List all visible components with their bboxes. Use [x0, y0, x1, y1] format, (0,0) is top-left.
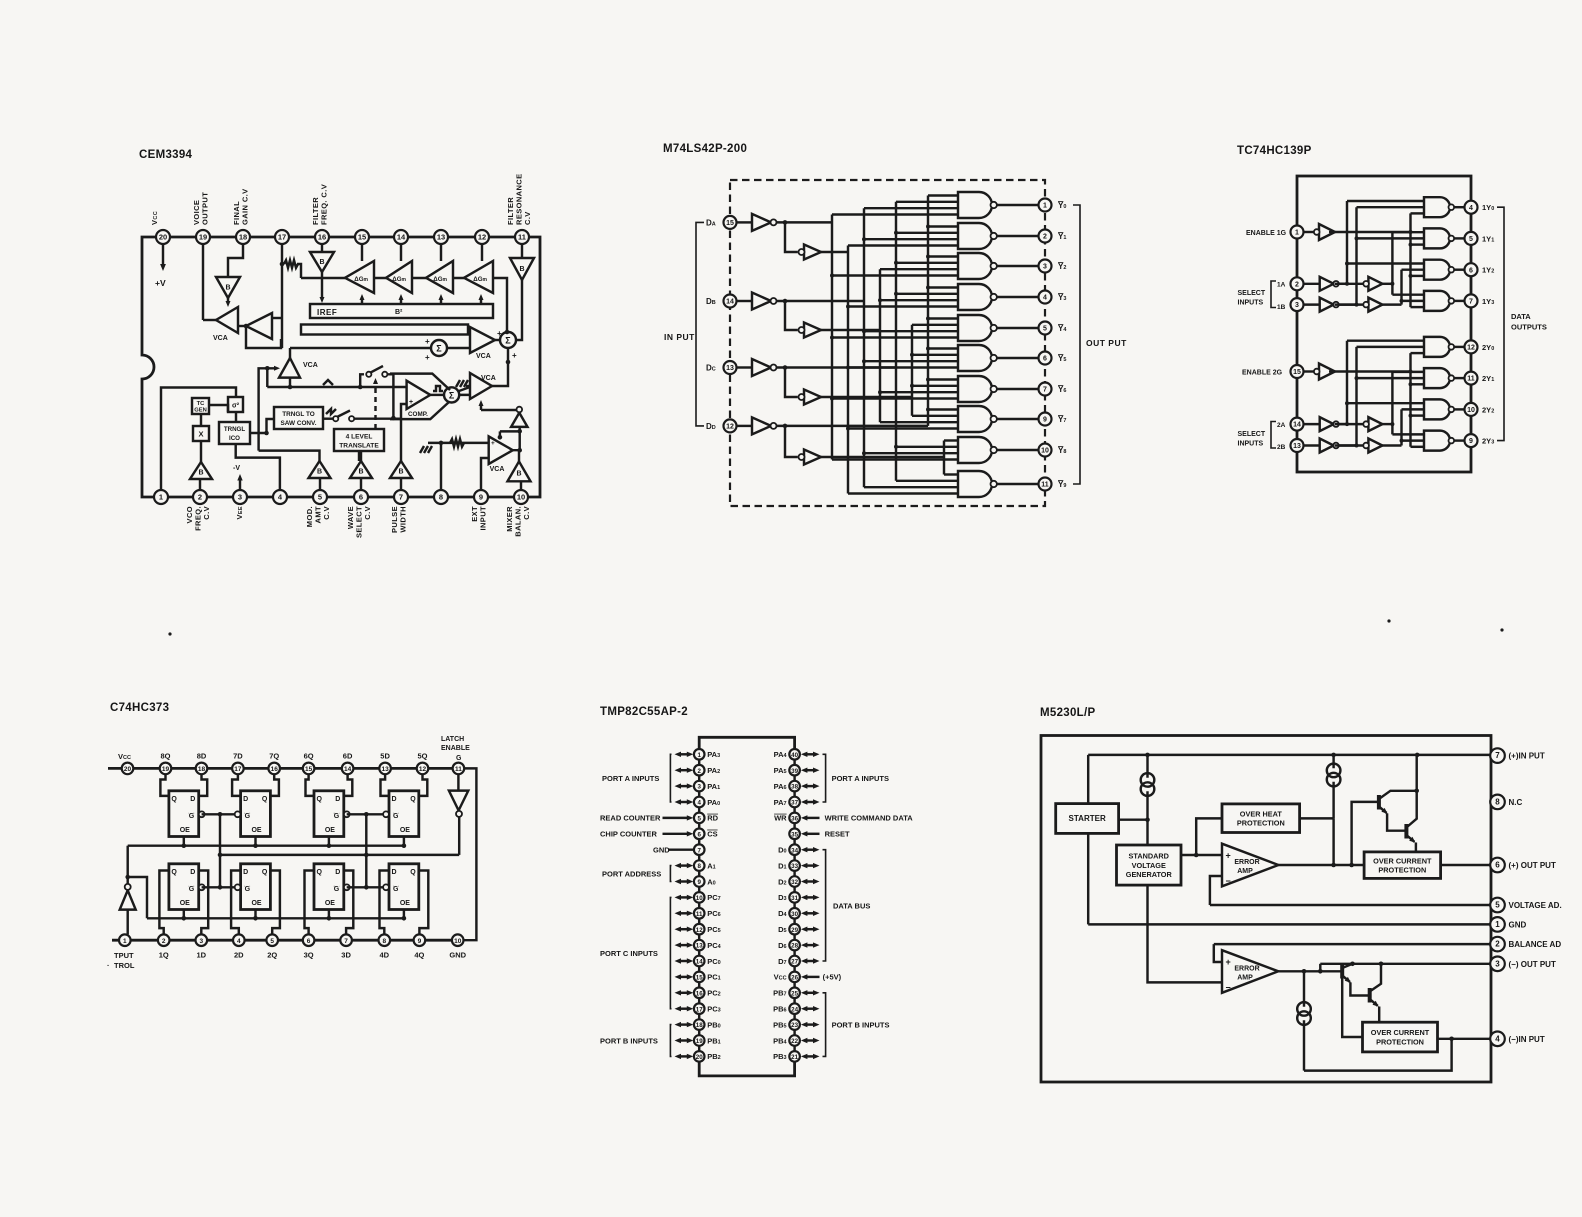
- wire latch enable line: [220, 854, 459, 856]
- node: [1145, 817, 1150, 822]
- wire gm bias: [480, 298, 482, 304]
- block TRNGL TO SAW CONV: [274, 407, 323, 429]
- wire: [200, 414, 202, 426]
- svg-text:1Y0: 1Y0: [1482, 203, 1494, 212]
- current source I3: [1297, 1002, 1311, 1025]
- svg-text:3: 3: [199, 938, 203, 945]
- wire pin 1: [126, 910, 128, 935]
- svg-text:35: 35: [791, 831, 798, 838]
- pin 9 output Y7: [1039, 413, 1052, 426]
- pin column wire: [698, 807, 700, 812]
- wire gate input: [864, 452, 958, 454]
- svg-text:5: 5: [270, 938, 274, 945]
- wire pin19 vertical: [202, 244, 204, 320]
- wire gate input: [912, 385, 958, 387]
- svg-text:(−) OUT PUT: (−) OUT PUT: [1509, 960, 1556, 969]
- wire gate input: [1357, 346, 1425, 348]
- pin 16: [268, 763, 280, 775]
- wire feedback loop: [246, 326, 281, 348]
- wire: [319, 478, 321, 490]
- svg-text:Q: Q: [410, 796, 416, 803]
- wire inverter link: [1339, 444, 1364, 446]
- svg-text:STARTER: STARTER: [1069, 814, 1106, 823]
- block OVER CURRENT PROTECTION lower: [1363, 1022, 1438, 1052]
- svg-text:(+5V): (+5V): [823, 973, 842, 982]
- svg-text:G: G: [245, 886, 251, 893]
- input bracket: [696, 222, 704, 426]
- wire gate input: [864, 330, 958, 332]
- svg-text:15: 15: [726, 220, 734, 227]
- wire gate input: [928, 347, 958, 349]
- arrow pin 9: [675, 879, 694, 884]
- bus vertical: [1409, 213, 1411, 307]
- label PORT C INPUTS: [600, 949, 658, 958]
- pin 12 output 2Y0: [1465, 340, 1478, 353]
- inverter DA second: [799, 245, 822, 260]
- wire OE stub bottom: [183, 910, 185, 919]
- svg-text:OE: OE: [251, 900, 261, 907]
- svg-text:Y7: Y7: [1058, 415, 1066, 424]
- inverter DC first: [752, 359, 777, 376]
- latch cell 1B (bottom row): [169, 864, 205, 910]
- pin 20: [122, 763, 134, 775]
- svg-text:19: 19: [199, 233, 207, 242]
- svg-text:5: 5: [697, 816, 701, 823]
- wire osc loop: [259, 368, 276, 450]
- arrow pin 11: [675, 911, 694, 916]
- wire inverter link: [1339, 283, 1364, 285]
- svg-text:G: G: [189, 813, 195, 820]
- bracket port B right: [823, 993, 826, 1057]
- node: [265, 366, 270, 371]
- wire gate input: [944, 473, 958, 475]
- pin column wire: [793, 966, 795, 971]
- inverter 2B first: [1320, 439, 1339, 453]
- right frame wire: [458, 768, 477, 940]
- arrow pin 21: [801, 1054, 820, 1059]
- pin 15: [303, 763, 315, 775]
- pin column wire: [698, 1030, 700, 1035]
- arrow pin 38: [801, 783, 820, 788]
- wire: [297, 264, 301, 278]
- wire error amp 1 out: [1278, 864, 1364, 866]
- svg-text:1Q: 1Q: [159, 951, 169, 960]
- svg-text:D5: D5: [778, 925, 786, 934]
- inverter enable 1G: [1314, 224, 1335, 240]
- svg-text:OE: OE: [400, 900, 410, 907]
- svg-text:13: 13: [437, 233, 445, 242]
- node: [1449, 1037, 1454, 1042]
- bracket data outputs: [1497, 207, 1504, 440]
- wire gate input: [880, 268, 958, 270]
- node junction: [244, 324, 249, 329]
- pin column wire: [793, 998, 795, 1003]
- arrow pin 10: [675, 895, 694, 900]
- svg-text:ENABLE 1G: ENABLE 1G: [1246, 230, 1287, 237]
- node: [1145, 753, 1150, 758]
- svg-text:GND: GND: [653, 846, 670, 855]
- block OVER HEAT PROTECTION: [1222, 804, 1300, 833]
- wire DA to inverter: [737, 221, 753, 223]
- wire pin1 to sigma2: [161, 388, 236, 491]
- pin 33: [789, 860, 800, 871]
- wire inverter link: [1339, 423, 1364, 425]
- svg-text:40: 40: [791, 752, 798, 759]
- wire: [289, 348, 291, 358]
- wire S3 out: [459, 387, 470, 395]
- svg-text:PB3: PB3: [773, 1052, 786, 1061]
- pin column wire: [793, 903, 795, 908]
- svg-text:31: 31: [791, 895, 798, 902]
- svg-text:34: 34: [791, 847, 798, 854]
- pin 19: [196, 230, 210, 244]
- svg-text:2: 2: [697, 768, 701, 775]
- svg-text:22: 22: [791, 1038, 798, 1045]
- label PORT A INPUTS right: [832, 774, 889, 783]
- svg-text:17: 17: [234, 766, 242, 773]
- wire OE line bottom: [147, 917, 404, 919]
- wire gate input: [880, 391, 958, 393]
- bracket port A right: [823, 754, 826, 802]
- latch cell 2A (top row): [235, 791, 271, 837]
- svg-text:Q: Q: [171, 869, 177, 876]
- block OVER CURRENT PROTECTION upper: [1364, 852, 1441, 879]
- svg-text:7Q: 7Q: [269, 752, 279, 761]
- label ENABLE 1G: [1246, 230, 1287, 237]
- wire gate input: [1411, 414, 1425, 416]
- svg-text:6: 6: [1495, 861, 1500, 870]
- amplifier B (wave select): [350, 461, 372, 478]
- wire gate input: [1402, 408, 1425, 410]
- svg-text:24: 24: [791, 1006, 798, 1013]
- svg-text:AMP: AMP: [1237, 975, 1253, 982]
- pin 7: [340, 934, 352, 946]
- label READ COUNTER: [600, 814, 661, 823]
- block X multiplier: [193, 426, 209, 441]
- pin column wire: [793, 839, 795, 844]
- wire voltage adj row: [1210, 904, 1491, 906]
- svg-text:PB6: PB6: [773, 1005, 786, 1014]
- wire Q2 emitter: [1415, 843, 1417, 852]
- block TRNGL ICO: [219, 422, 250, 444]
- pin column wire: [698, 935, 700, 940]
- wire from mixer inverter: [481, 407, 519, 410]
- svg-text:ΔGm: ΔGm: [354, 276, 368, 283]
- svg-text:Y3: Y3: [1058, 293, 1066, 302]
- pin 13: [434, 230, 448, 244]
- svg-text:2D: 2D: [234, 951, 244, 960]
- comparator COMP: [407, 381, 431, 418]
- pin 11: [515, 230, 529, 244]
- wire: [358, 451, 360, 461]
- pin 7 output 1Y3: [1465, 294, 1478, 307]
- pin 10 output Y8: [1039, 444, 1052, 457]
- inverter DD second: [799, 450, 822, 465]
- pin column wire: [793, 1030, 795, 1035]
- pin 8: [434, 490, 448, 504]
- svg-text:ICO: ICO: [229, 435, 240, 442]
- NAND gate Y1: [958, 223, 997, 249]
- label VCO FREQ. C.V pin2: [185, 506, 211, 531]
- svg-text:B: B: [516, 470, 521, 477]
- svg-text:8: 8: [1495, 798, 1500, 807]
- wire /A row: [777, 221, 833, 223]
- svg-text:PORT A INPUTS: PORT A INPUTS: [602, 774, 659, 783]
- wire: [209, 405, 228, 412]
- bottom rail: [112, 939, 458, 942]
- wire gate input: [848, 366, 958, 368]
- svg-text:VCC: VCC: [118, 752, 131, 761]
- wire gate input: [928, 225, 958, 227]
- svg-text:2Y0: 2Y0: [1482, 343, 1494, 352]
- svg-text:2: 2: [1295, 281, 1299, 288]
- wire (-)output row: [1320, 963, 1490, 965]
- pin column wire: [793, 823, 795, 828]
- inverter 1A first: [1320, 277, 1339, 291]
- label WRITE COMMAND DATA: [825, 814, 914, 823]
- bus vertical: [1409, 353, 1411, 447]
- wire: [480, 404, 482, 410]
- wire gate input: [864, 238, 958, 240]
- svg-text:1Y1: 1Y1: [1482, 234, 1494, 243]
- pin 30: [789, 908, 800, 919]
- wire to pin17 net: [272, 317, 282, 319]
- arrow pin 39: [801, 768, 820, 773]
- svg-text:WR: WR: [774, 814, 787, 823]
- svg-text:27: 27: [791, 959, 798, 966]
- wire output 1Y2: [1454, 268, 1464, 270]
- svg-text:DATA: DATA: [1511, 312, 1531, 321]
- svg-text:D6: D6: [778, 941, 786, 950]
- svg-text:7D: 7D: [233, 752, 243, 761]
- pin column wire: [793, 887, 795, 892]
- svg-text:2Y1: 2Y1: [1482, 374, 1494, 383]
- wire Q3 to OCP: [1342, 979, 1362, 1038]
- transconductor dGm 3: [426, 261, 453, 293]
- label PORT ADDRESS: [602, 870, 661, 879]
- svg-text:18: 18: [198, 766, 206, 773]
- label WAVE SELECT C.V pin6: [346, 506, 372, 538]
- svg-text:7: 7: [399, 493, 403, 502]
- wire B to bus: [1382, 303, 1401, 305]
- pin 1 output Y0: [1039, 199, 1052, 212]
- wire pin 9 to cell: [419, 871, 429, 935]
- svg-text:14: 14: [696, 959, 703, 966]
- svg-text:INPUTS: INPUTS: [1238, 300, 1264, 307]
- triangle glyph: [323, 380, 333, 385]
- NAND gate Y5: [958, 345, 997, 371]
- svg-text:G: G: [334, 813, 340, 820]
- op-amp ERROR AMP 1: [1222, 844, 1278, 887]
- svg-text:OUT PUT: OUT PUT: [1086, 338, 1127, 348]
- node: [783, 365, 788, 370]
- arrow pin 25: [801, 990, 820, 995]
- svg-text:GAIN C.V: GAIN C.V: [241, 188, 250, 225]
- wire pin 2 to cell: [159, 871, 169, 935]
- pin 1: [694, 749, 705, 760]
- svg-text:B²: B²: [395, 309, 403, 316]
- svg-text:ENABLE 2G: ENABLE 2G: [1242, 370, 1283, 377]
- svg-text:IREF: IREF: [317, 308, 337, 317]
- NAND gate Y8: [958, 437, 997, 463]
- svg-text:10: 10: [1467, 407, 1475, 414]
- wire B row: [820, 329, 880, 331]
- block sigma-squared: [228, 397, 243, 412]
- wire D row: [820, 456, 944, 458]
- pin column wire: [698, 903, 700, 908]
- pin 4: [694, 797, 705, 808]
- pin 7: [1490, 748, 1505, 763]
- wire to starter: [1087, 755, 1089, 804]
- wire ext input: [428, 442, 489, 444]
- wire (+)input rail: [1088, 754, 1490, 756]
- svg-text:17: 17: [278, 233, 286, 242]
- wire output 2Y2: [1454, 408, 1464, 410]
- pin 14 select 2A: [1291, 418, 1304, 431]
- pin 31: [789, 892, 800, 903]
- bracket select inputs 2: [1271, 422, 1276, 449]
- wire pin 13 to cell: [381, 774, 390, 796]
- wire gm bus: [301, 277, 345, 279]
- node: [498, 435, 503, 440]
- svg-text:3: 3: [238, 493, 242, 502]
- op-amp ERROR AMP 2: [1222, 950, 1278, 993]
- pin 17: [694, 1003, 705, 1014]
- wire gate input: [1402, 439, 1425, 441]
- wire DC to inverter: [737, 366, 753, 368]
- pin 3 select 1B: [1291, 298, 1304, 311]
- pin 40: [789, 749, 800, 760]
- wire G to bus: [1329, 370, 1411, 372]
- svg-text:OE: OE: [325, 827, 335, 834]
- pin column wire: [698, 760, 700, 765]
- pin 8: [694, 860, 705, 871]
- svg-text:+: +: [425, 337, 430, 346]
- latch cell 1A (top row): [169, 791, 205, 837]
- wire gate input: [848, 427, 958, 429]
- svg-text:11: 11: [696, 911, 703, 918]
- svg-text:6: 6: [1043, 356, 1047, 363]
- wire gate input: [1357, 206, 1425, 208]
- bias box IREF / B-squared: [310, 304, 493, 318]
- svg-text:G: G: [245, 813, 251, 820]
- bracket port address: [670, 866, 671, 882]
- svg-text:D1: D1: [778, 861, 786, 870]
- svg-text:2Y3: 2Y3: [1482, 437, 1494, 446]
- svg-text:ERROR: ERROR: [1234, 859, 1259, 866]
- svg-text:28: 28: [791, 943, 798, 950]
- pin 37: [789, 797, 800, 808]
- wire gate input: [848, 492, 958, 494]
- wire gate input: [832, 458, 958, 460]
- wire Q4 emitter: [1378, 1007, 1380, 1023]
- pin column wire: [793, 1046, 795, 1051]
- node: [1331, 863, 1336, 868]
- sawtooth glyph: [326, 409, 336, 414]
- svg-text:PB4: PB4: [773, 1036, 787, 1045]
- pin 13: [379, 763, 391, 775]
- svg-text:D: D: [243, 869, 248, 876]
- label CHIP COUNTER: [600, 830, 658, 839]
- svg-text:20: 20: [159, 233, 167, 242]
- wire OE line top: [128, 844, 404, 846]
- svg-text:Y5: Y5: [1058, 354, 1066, 363]
- svg-text:OVER CURRENT: OVER CURRENT: [1373, 856, 1432, 865]
- bracket data bus: [823, 850, 826, 961]
- svg-text:INPUT: INPUT: [479, 506, 488, 531]
- wire gate input: [1347, 262, 1424, 264]
- NAND gate 1Y1: [1424, 228, 1454, 248]
- pin column wire: [698, 966, 700, 971]
- pin 5: [1490, 898, 1505, 913]
- svg-text:Y2: Y2: [1058, 262, 1066, 271]
- wire gate input: [928, 408, 958, 410]
- amplifier B (mixer balance): [508, 461, 531, 481]
- svg-text:B: B: [398, 469, 403, 476]
- wire: [354, 417, 401, 419]
- label +5V: [823, 973, 842, 982]
- arrow pin 17: [675, 1006, 694, 1011]
- pin 2: [1490, 937, 1505, 952]
- NAND gate 1Y0: [1424, 197, 1454, 217]
- wire pin 17 to cell: [232, 774, 241, 796]
- wire gate input: [1411, 383, 1425, 385]
- pin 19: [160, 763, 172, 775]
- svg-text:9: 9: [1469, 438, 1473, 445]
- inverter 2A second: [1363, 417, 1382, 431]
- arrow pin 5: [663, 815, 694, 820]
- wire: [259, 451, 320, 461]
- NAND gate 2Y0: [1424, 337, 1454, 357]
- svg-text:3Q: 3Q: [304, 951, 314, 960]
- svg-text:Y8: Y8: [1058, 446, 1066, 455]
- wire: [200, 441, 202, 462]
- pin 18: [196, 763, 208, 775]
- IC body outline: [1041, 736, 1491, 1083]
- arrow pin 37: [801, 799, 820, 804]
- svg-text:C.V: C.V: [363, 506, 372, 520]
- arrow pin 12: [675, 927, 694, 932]
- svg-text:37: 37: [791, 800, 798, 807]
- wire: [447, 347, 470, 349]
- wire Q1 emitter to Q2 base: [1387, 813, 1406, 830]
- wire pin 12 to cell: [419, 774, 428, 796]
- arrow pin 40: [801, 752, 820, 757]
- wire gate input: [848, 244, 958, 246]
- svg-text:GEN: GEN: [194, 408, 207, 414]
- wire enable: [1304, 370, 1314, 372]
- bracket port A left: [670, 754, 671, 802]
- arrow pin 30: [801, 911, 820, 916]
- svg-text:PC6: PC6: [707, 909, 720, 918]
- wire A to bus: [1382, 423, 1392, 425]
- svg-text:9: 9: [479, 493, 483, 502]
- pin column wire: [698, 950, 700, 955]
- svg-text:(+)IN PUT: (+)IN PUT: [1509, 752, 1545, 761]
- svg-text:1Y2: 1Y2: [1482, 266, 1494, 275]
- svg-text:PC0: PC0: [707, 957, 720, 966]
- svg-text:8: 8: [697, 863, 701, 870]
- wire Gbar pair top: [202, 813, 235, 815]
- svg-text:C.V: C.V: [322, 506, 331, 520]
- svg-text:X: X: [198, 430, 203, 439]
- arrow pin 35: [801, 831, 820, 836]
- arrow pin 28: [801, 942, 820, 947]
- svg-text:14: 14: [397, 233, 406, 242]
- svg-text:Σ: Σ: [449, 390, 455, 400]
- inverter latch enable: [449, 791, 468, 817]
- pin column wire: [698, 871, 700, 876]
